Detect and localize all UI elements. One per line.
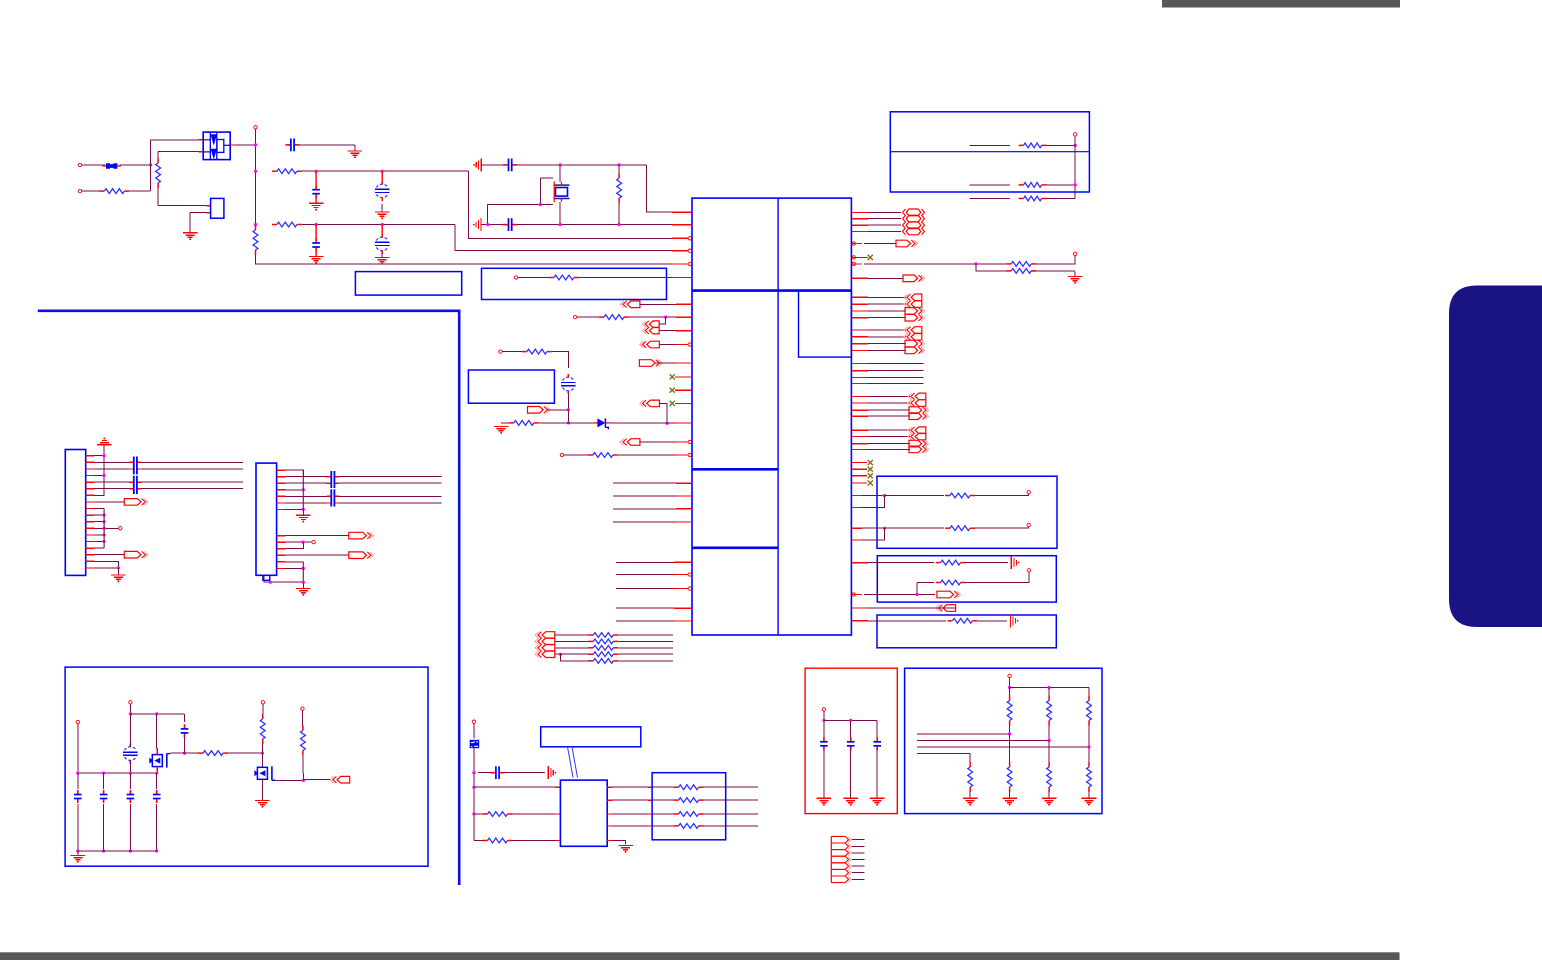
cap feed stub	[381, 225, 383, 238]
wire	[129, 773, 131, 789]
no-connect	[868, 460, 873, 465]
wire	[824, 719, 877, 721]
wire	[95, 521, 105, 523]
pin	[688, 587, 691, 590]
junction	[102, 772, 105, 775]
wire	[1048, 688, 1050, 696]
wire	[1088, 688, 1090, 696]
pin stub	[672, 211, 692, 213]
junction	[822, 719, 825, 722]
pin	[1027, 569, 1030, 572]
wire	[613, 841, 626, 845]
junction	[883, 494, 886, 497]
junction	[149, 163, 152, 166]
resistor	[301, 725, 306, 755]
junction	[1074, 144, 1077, 147]
wire	[618, 203, 620, 224]
wire	[876, 720, 878, 738]
junction	[302, 508, 305, 511]
wire	[868, 211, 901, 213]
junction	[1087, 745, 1090, 748]
junction	[102, 849, 105, 852]
wire	[876, 750, 878, 799]
offpage tag	[904, 301, 922, 308]
cap stub	[335, 495, 339, 497]
resistor R6	[617, 173, 622, 203]
ground	[1042, 798, 1057, 805]
wire	[864, 263, 1006, 265]
wire	[868, 448, 910, 450]
wire	[704, 825, 758, 827]
cap feed stub	[381, 171, 383, 184]
ground	[494, 427, 509, 434]
wire	[518, 277, 549, 279]
pin stub	[851, 448, 868, 450]
capacitor CA3 plates	[331, 471, 334, 488]
resistor	[1019, 183, 1047, 188]
junction	[381, 223, 384, 226]
capacitor CA4 plates	[331, 489, 334, 506]
wire	[868, 310, 906, 312]
wire	[618, 640, 673, 642]
wire	[1036, 256, 1075, 264]
wire	[823, 750, 825, 799]
wire	[286, 495, 327, 497]
wire	[95, 547, 105, 549]
wire	[255, 129, 257, 225]
pin stub	[676, 521, 692, 523]
pin stub	[851, 336, 868, 338]
wire	[539, 178, 541, 205]
wire	[977, 620, 1007, 622]
ground	[309, 203, 324, 210]
pin stub	[851, 382, 868, 384]
wire	[286, 542, 304, 549]
resistor	[198, 751, 228, 756]
wire	[917, 733, 1010, 735]
resistor	[1087, 696, 1092, 726]
navy side tab	[1449, 286, 1542, 628]
pin stub	[851, 402, 868, 404]
wire	[1048, 740, 1050, 762]
wire	[659, 344, 676, 346]
no-connect	[868, 480, 873, 485]
pin stub	[851, 482, 867, 484]
wire	[868, 415, 910, 417]
wire	[613, 825, 649, 827]
wire	[618, 454, 676, 456]
offpage tag T2	[642, 321, 659, 328]
wire	[868, 296, 906, 298]
resistor	[674, 824, 704, 829]
resistor	[674, 798, 704, 803]
offpage tag	[349, 552, 374, 559]
pin stub	[676, 441, 688, 443]
wire	[469, 171, 672, 238]
connector J2 bus2	[302, 562, 304, 582]
chassis ground	[1011, 556, 1019, 569]
pin stub	[86, 455, 95, 457]
wire	[103, 773, 105, 789]
wire	[868, 218, 901, 220]
wire	[652, 786, 675, 788]
wire	[129, 804, 131, 851]
pin stub	[555, 813, 560, 815]
offpage tag	[330, 776, 350, 783]
wire	[256, 255, 673, 264]
wire	[77, 773, 79, 789]
junction	[315, 223, 318, 226]
resistor	[1019, 196, 1047, 201]
wire	[501, 422, 511, 424]
wire	[704, 813, 758, 815]
cap stub	[335, 476, 339, 478]
pin stub	[851, 507, 862, 509]
wire	[567, 393, 569, 423]
resistor R11	[588, 453, 618, 458]
wire	[917, 746, 1089, 748]
wire	[613, 521, 676, 523]
bottom gray bar	[0, 952, 1400, 960]
junction	[254, 143, 257, 146]
wire	[286, 535, 349, 537]
pullup box (blue)	[905, 668, 1102, 813]
wire	[189, 213, 191, 233]
offpage tag	[903, 275, 925, 282]
ground	[1068, 272, 1083, 284]
pin stub	[675, 389, 692, 391]
junction	[254, 223, 257, 226]
wire	[190, 212, 206, 214]
wire	[618, 653, 673, 655]
pin stub	[277, 548, 286, 550]
junction	[1074, 183, 1077, 186]
wire	[505, 772, 546, 774]
wire	[916, 583, 918, 595]
pin stub	[851, 303, 868, 305]
pin	[261, 701, 264, 704]
capacitor	[100, 790, 108, 803]
wire	[286, 470, 304, 477]
pin stub	[674, 620, 692, 622]
pin stub	[86, 481, 95, 483]
wire	[303, 779, 330, 781]
cap stub	[137, 461, 141, 463]
wire	[868, 607, 956, 609]
label box pointer	[568, 747, 578, 778]
wire	[667, 422, 676, 424]
wire	[95, 468, 129, 470]
wire	[868, 620, 946, 622]
no-connect X1	[670, 374, 675, 379]
wire	[561, 654, 591, 661]
wire	[130, 713, 184, 715]
pin P9	[688, 343, 691, 346]
cap stub	[129, 488, 133, 490]
pin stub	[676, 330, 692, 332]
capacitor C1	[285, 139, 299, 152]
wire	[862, 495, 885, 497]
pin stub	[648, 813, 652, 815]
wire	[1010, 687, 1089, 689]
pin P11	[688, 440, 691, 443]
wire	[862, 528, 885, 540]
wire	[339, 495, 442, 497]
wire	[129, 760, 131, 773]
pin stub	[277, 502, 286, 504]
wire	[966, 572, 1029, 583]
wire	[474, 840, 485, 842]
wire	[618, 165, 620, 173]
pin stub	[672, 224, 692, 226]
wire	[616, 561, 674, 563]
pin stub	[851, 429, 868, 431]
wire	[156, 714, 158, 749]
junction	[261, 752, 264, 755]
junction	[559, 223, 562, 226]
pin stub	[851, 343, 868, 345]
mosfet Q1	[149, 754, 170, 768]
pin stub	[207, 212, 211, 214]
wire	[129, 714, 131, 747]
wire	[141, 488, 243, 490]
cap stub	[335, 482, 339, 484]
junction	[76, 849, 79, 852]
offpage tag	[905, 314, 925, 321]
wire	[970, 184, 1011, 186]
pin stub	[851, 377, 868, 379]
fuse F1	[103, 163, 121, 169]
chassis ground	[473, 158, 481, 171]
cap stub	[335, 502, 339, 504]
offpage tag	[904, 294, 922, 301]
wire	[568, 422, 594, 424]
wire	[613, 482, 676, 484]
wire	[704, 799, 758, 801]
pin	[1027, 491, 1030, 494]
offpage tag	[908, 427, 926, 434]
block box B2	[355, 272, 461, 296]
pin stub	[851, 310, 868, 312]
wire	[868, 395, 910, 397]
pin stub	[555, 786, 560, 788]
offpage tag	[535, 645, 555, 652]
wire	[95, 508, 105, 510]
wire	[156, 771, 158, 773]
resistor	[483, 838, 513, 843]
wire	[95, 567, 119, 569]
junction	[1048, 686, 1051, 689]
pin stub	[86, 488, 95, 490]
ground	[183, 233, 198, 240]
wire	[78, 850, 157, 852]
pin stub	[851, 594, 862, 596]
pin	[852, 256, 855, 259]
capacitor CA2 plates	[134, 476, 137, 494]
junction	[103, 533, 106, 536]
resistor	[260, 714, 265, 744]
block box B7	[877, 615, 1056, 648]
resistor	[968, 762, 973, 792]
wire	[481, 224, 503, 226]
wire	[561, 653, 591, 655]
pin P7	[514, 276, 517, 279]
wire	[158, 188, 207, 206]
offpage tag T3	[642, 327, 659, 334]
wire	[302, 755, 305, 780]
junction	[381, 170, 384, 173]
pin	[852, 262, 855, 265]
wire	[646, 165, 672, 212]
pin stub	[607, 786, 612, 788]
wire	[613, 786, 649, 788]
pin stub	[676, 482, 692, 484]
pin stub	[86, 527, 95, 529]
wire	[82, 190, 104, 192]
wire	[95, 527, 119, 529]
wire	[868, 562, 934, 564]
pin stub	[851, 277, 868, 279]
pin	[119, 527, 122, 530]
wire	[970, 198, 1011, 200]
pin P13	[688, 453, 691, 456]
pin	[1008, 674, 1011, 677]
pin P6	[688, 262, 691, 265]
wire	[264, 575, 304, 582]
IC U1 internal divider	[777, 198, 779, 635]
ground	[1002, 798, 1017, 805]
diode pack D1 outline	[203, 132, 230, 160]
wire	[156, 773, 158, 789]
wire	[917, 582, 934, 584]
wire	[286, 554, 349, 556]
chassis ground	[1010, 614, 1018, 627]
wire	[868, 317, 906, 319]
chassis ground	[473, 218, 481, 231]
capacitor	[153, 790, 161, 803]
wire	[513, 813, 556, 815]
pin stub	[277, 469, 286, 471]
junction	[155, 712, 158, 715]
junction	[269, 581, 272, 584]
wire	[151, 139, 199, 141]
wire	[1048, 792, 1050, 798]
wire	[975, 527, 1029, 529]
wire	[613, 813, 649, 815]
regulator box U3	[211, 198, 224, 218]
wire	[975, 494, 1029, 496]
wire	[969, 792, 971, 798]
wire	[970, 144, 1011, 146]
wire	[862, 527, 885, 529]
cap stub	[137, 481, 141, 483]
polar cap C8	[561, 374, 575, 394]
pin	[472, 720, 475, 723]
junction	[129, 849, 132, 852]
block box B1 divider	[890, 151, 1089, 153]
wire	[564, 454, 590, 456]
resistor R10	[509, 421, 539, 426]
pin stub	[851, 243, 862, 245]
pin stub	[851, 443, 868, 445]
polar cap C3	[375, 181, 389, 201]
pin stub	[676, 422, 692, 424]
wire	[478, 772, 491, 774]
pin	[76, 720, 79, 723]
wire	[95, 514, 105, 516]
junction	[302, 779, 305, 782]
junction	[103, 540, 106, 543]
wire	[95, 541, 105, 543]
block box B6	[877, 556, 1056, 602]
IC U1 thick bus line 2	[692, 468, 778, 471]
pin stub	[277, 561, 286, 563]
wire	[286, 508, 304, 510]
pin stub	[851, 230, 868, 232]
chassis ground	[548, 766, 556, 779]
wire	[95, 501, 125, 503]
pin stub	[851, 395, 868, 397]
wire	[170, 752, 184, 754]
offpage hex tag	[903, 228, 925, 235]
wire	[547, 409, 568, 411]
pin stub	[277, 541, 286, 543]
IC U1 outline	[692, 198, 851, 635]
wire	[103, 804, 105, 851]
wire	[129, 704, 131, 714]
wire	[185, 752, 201, 754]
resistor	[588, 652, 618, 657]
cap feed stub	[315, 225, 317, 240]
wire	[559, 165, 561, 182]
ground	[111, 568, 126, 582]
polar cap C5	[375, 234, 389, 254]
resistor box B10	[652, 773, 726, 840]
junction	[103, 520, 106, 523]
debug box B3	[482, 268, 667, 299]
ground	[309, 257, 324, 264]
wire	[95, 534, 105, 536]
pin	[688, 573, 691, 576]
wire	[862, 496, 885, 508]
pin stub	[86, 554, 95, 556]
capacitor CA1 plates	[134, 457, 137, 475]
ground	[843, 798, 858, 805]
pin P10	[499, 350, 502, 353]
wire	[618, 647, 673, 649]
offpage tag	[909, 446, 929, 453]
wire	[261, 753, 263, 766]
wire	[616, 574, 674, 576]
wire	[158, 151, 198, 153]
pin	[852, 593, 855, 596]
blue section divider	[38, 311, 459, 885]
chip box U2	[560, 780, 607, 846]
pin stub	[672, 277, 692, 279]
cap stub	[129, 468, 133, 470]
ground	[618, 846, 633, 853]
pin stub	[851, 409, 868, 411]
capacitor	[74, 790, 82, 803]
resistor R4	[272, 222, 302, 227]
pin P2	[78, 189, 81, 192]
wire	[868, 363, 924, 365]
junction	[302, 567, 305, 570]
wire	[1009, 726, 1011, 734]
resistor R3	[272, 169, 302, 174]
wire	[616, 620, 674, 622]
pin stub	[86, 494, 95, 496]
